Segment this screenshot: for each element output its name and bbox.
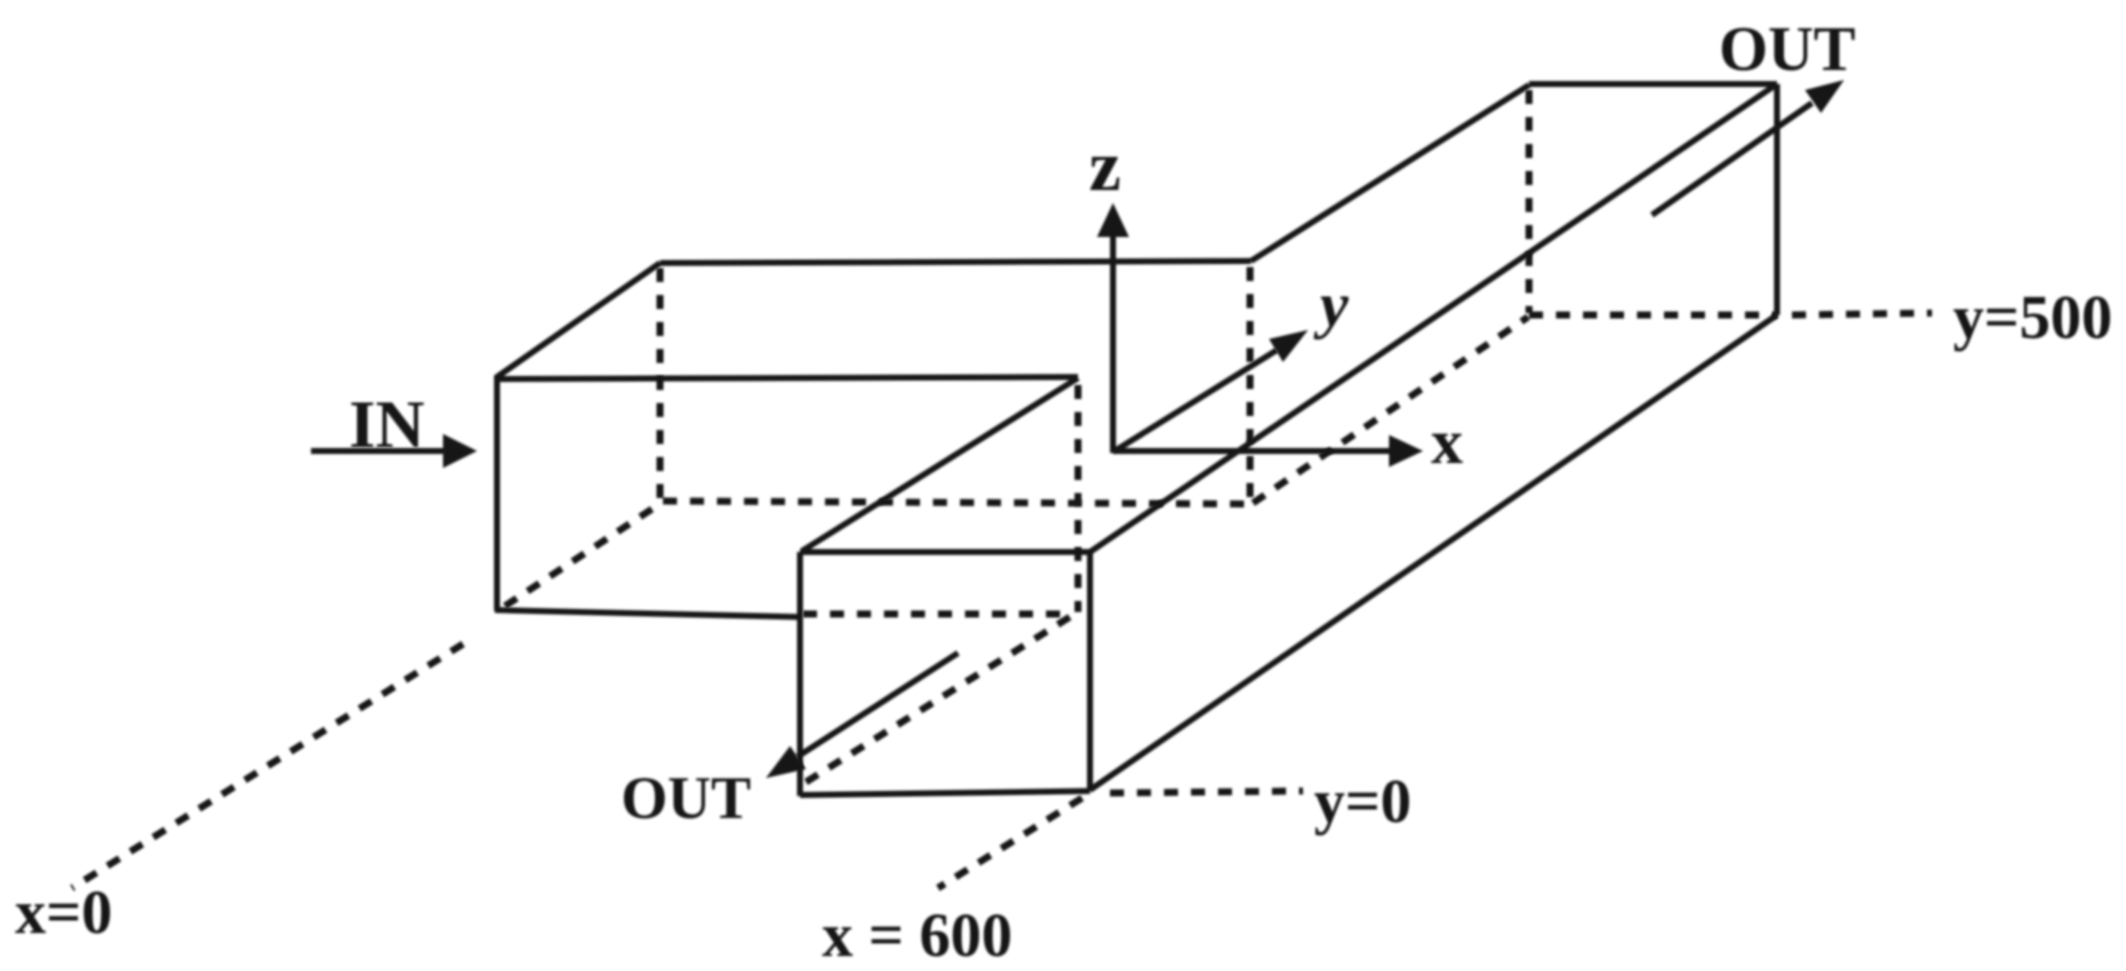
OUT top arrowhead xyxy=(1805,80,1844,113)
main duct top-right long edge xyxy=(1090,84,1777,552)
small box right vertical edge xyxy=(1087,552,1093,791)
x axis xyxy=(1113,448,1396,454)
IN arrow shaft xyxy=(311,448,446,454)
small box bottom edge xyxy=(800,791,1090,795)
svg-text:z: z xyxy=(1089,126,1121,206)
hidden vertical edge x=1250 xyxy=(1247,267,1254,501)
OUT bottom arrowhead xyxy=(766,746,806,778)
hidden vertical edge x=1078 xyxy=(1075,385,1082,612)
y=0 marker dashed line xyxy=(1110,791,1303,793)
svg-text:x = 600: x = 600 xyxy=(822,902,1012,970)
x=0 marker dashed line xyxy=(72,644,463,888)
OUT arrow top shaft xyxy=(1652,103,1812,215)
main duct hidden bottom-left edge xyxy=(1253,317,1528,503)
y axis xyxy=(1113,350,1277,452)
y axis arrowhead xyxy=(1269,330,1308,362)
svg-text:OUT: OUT xyxy=(1719,14,1856,84)
x=600 marker dashed line xyxy=(938,798,1082,888)
left box top-left slant edge xyxy=(497,263,660,377)
svg-text:IN: IN xyxy=(349,386,425,462)
hidden diagonal edge inside small box xyxy=(806,615,1073,782)
left box top-front edge xyxy=(497,377,1078,379)
hidden bottom edge behind small box xyxy=(803,611,1073,618)
main duct top-left edge upper part xyxy=(1251,85,1529,261)
left box hidden back-left vertical edge xyxy=(657,268,664,500)
main duct top-left edge lower part xyxy=(802,378,1078,551)
outlet face y=500 right edge xyxy=(1774,84,1780,315)
IN arrowhead xyxy=(443,434,477,468)
outlet face hidden left edge xyxy=(1526,90,1533,313)
svg-text:y: y xyxy=(1313,269,1349,340)
small box left vertical edge xyxy=(797,552,803,796)
svg-text:OUT: OUT xyxy=(621,765,751,831)
left box bottom-front edge xyxy=(495,610,801,617)
left box hidden bottom-left slant edge xyxy=(505,505,658,606)
svg-text:x=0: x=0 xyxy=(15,879,112,947)
svg-text:x: x xyxy=(1431,406,1463,477)
y=500 marker dashed line xyxy=(1792,313,1932,315)
OUT arrow bottom shaft xyxy=(797,653,958,757)
outlet face hidden bottom edge xyxy=(1529,312,1777,319)
svg-text:y=500: y=500 xyxy=(1953,284,2112,352)
x axis arrowhead xyxy=(1389,435,1423,467)
svg-text:y=0: y=0 xyxy=(1314,768,1411,836)
left box front-left vertical edge xyxy=(494,375,500,611)
left box hidden bottom-back edge xyxy=(663,501,1249,504)
small box top edge xyxy=(800,549,1090,555)
z axis arrowhead xyxy=(1097,203,1129,237)
main duct bottom-right long edge xyxy=(1090,315,1777,790)
z axis xyxy=(1110,228,1116,453)
outlet face y=500 top edge xyxy=(1529,81,1777,87)
left box top-back edge xyxy=(660,261,1251,263)
